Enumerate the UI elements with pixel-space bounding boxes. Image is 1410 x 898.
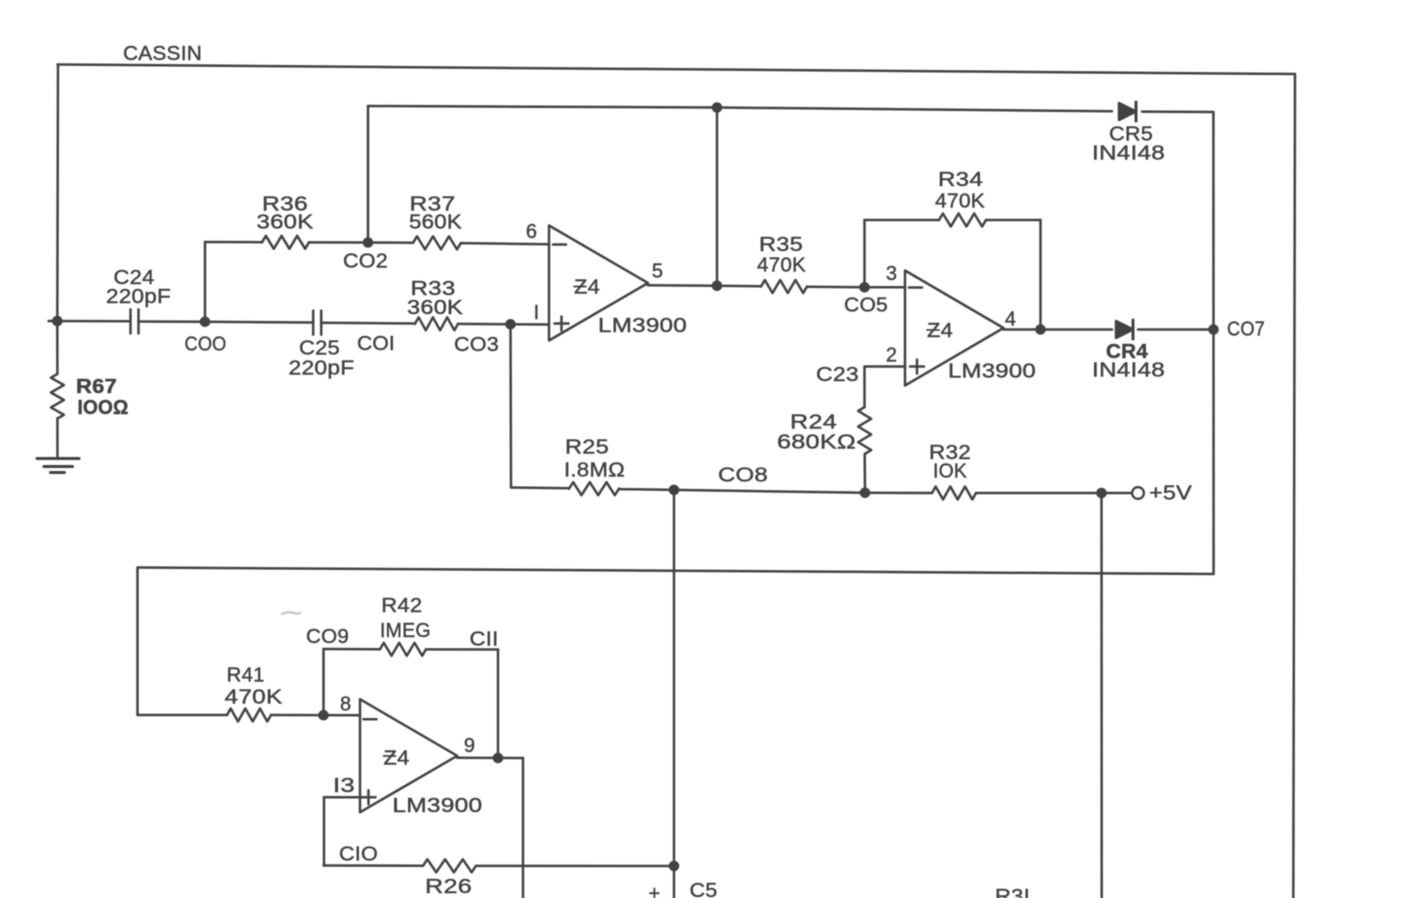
resistor R34 470K xyxy=(939,214,986,227)
wire x137 corner to R41 xyxy=(138,714,228,717)
junction C08 rail at R24 xyxy=(860,488,871,499)
wire right border vertical xyxy=(1293,74,1295,898)
wire C24 to node C00 xyxy=(139,320,206,323)
wire C07 vertical drop xyxy=(1212,112,1215,574)
wire C11 drop to U3 output xyxy=(497,650,500,759)
svg-text:LM3900: LM3900 xyxy=(392,795,482,817)
junction U1 output xyxy=(712,281,723,292)
junction node C00 xyxy=(200,317,211,328)
svg-text:CIO: CIO xyxy=(339,843,378,865)
wire R34 right drop to U2 output xyxy=(1039,220,1042,330)
svg-text:+5V: +5V xyxy=(1149,482,1193,504)
junction input node (left border) xyxy=(52,316,63,327)
op-amp U3 (Z4 LM3900 third section) xyxy=(360,699,457,812)
wire U3 output to corner xyxy=(457,757,523,760)
junction node C02 xyxy=(363,237,374,248)
wire node C02 to R37 xyxy=(368,241,413,244)
wire x674 vertical xyxy=(673,490,676,898)
U3 non-inverting input marker xyxy=(362,790,376,804)
U1 non-inverting input marker xyxy=(555,317,569,331)
svg-text:CO9: CO9 xyxy=(306,626,349,648)
svg-text:CO3: CO3 xyxy=(454,334,499,356)
svg-text:IN4I48: IN4I48 xyxy=(1092,142,1165,164)
junction U3 pin 8 node xyxy=(318,710,329,721)
resistor R42 1MEG xyxy=(380,643,426,656)
wire C23 corner to U2 pin 2 xyxy=(865,365,906,368)
wire C02 feedback top rail xyxy=(368,106,1112,111)
wire R41 to junction pin8 xyxy=(271,714,360,717)
junction R26 / C5 node xyxy=(669,861,680,872)
svg-text:Z4: Z4 xyxy=(384,747,410,769)
wire left riser x137 xyxy=(136,568,139,716)
diode CR4 1N4148 xyxy=(1116,320,1133,339)
svg-text:220pF: 220pF xyxy=(106,286,171,308)
resistor R32 10K xyxy=(932,487,976,500)
diode CR5 1N4148 xyxy=(1119,102,1136,121)
resistor R67 100ohm xyxy=(51,374,64,419)
svg-text:C23: C23 xyxy=(816,364,859,386)
ground symbol xyxy=(37,459,79,473)
capacitor C25 220pF xyxy=(313,311,321,335)
svg-text:CO8: CO8 xyxy=(718,464,768,486)
svg-text:LM3900: LM3900 xyxy=(598,315,687,337)
wire C09 riser xyxy=(322,649,325,715)
wire node C05 to U2 pin 3 xyxy=(865,286,906,289)
U2 inverting input marker xyxy=(909,286,922,289)
svg-text:CII: CII xyxy=(470,628,499,650)
wire CR5 cathode to right corner xyxy=(1142,110,1213,113)
wire C10 corner to R26 xyxy=(324,864,424,867)
wire C25 to R33 xyxy=(322,321,416,324)
op-amp U1 (Z4 LM3900 first section) xyxy=(549,226,648,341)
svg-text:8: 8 xyxy=(340,693,351,715)
svg-text:CO5: CO5 xyxy=(844,294,888,316)
svg-text:LM3900: LM3900 xyxy=(948,360,1036,382)
wire long return horizontal xyxy=(138,568,1214,575)
U3 inverting input marker xyxy=(364,718,377,721)
wire C23 drop to R24 xyxy=(863,367,866,408)
resistor R26 xyxy=(423,859,476,872)
svg-text:560K: 560K xyxy=(409,211,463,233)
wire R24 to C08 rail xyxy=(863,454,866,493)
U2 Z-stroke bar xyxy=(927,329,939,331)
junction node C03 xyxy=(505,319,516,330)
wire vertical U1-output riser to top rail xyxy=(716,108,719,286)
junction R25/C08 rail at x674 xyxy=(669,485,680,496)
svg-text:COI: COI xyxy=(357,333,395,355)
svg-text:I3: I3 xyxy=(333,775,355,797)
svg-text:R24: R24 xyxy=(790,411,837,433)
wire R34 top right segment xyxy=(986,219,1041,222)
wire R25 corner to zigzag xyxy=(511,486,569,489)
junction node C05 xyxy=(859,282,870,293)
resistor R36 360K xyxy=(262,236,309,249)
wire input node to R67 xyxy=(56,321,59,374)
svg-text:IOOΩ: IOOΩ xyxy=(78,397,129,419)
wire R36 to node C02 xyxy=(309,241,368,244)
wire node C00 to C25 xyxy=(205,321,313,324)
svg-text:R25: R25 xyxy=(565,436,609,458)
resistor R25 1.8Mohm xyxy=(569,482,619,495)
wire R34 top left segment xyxy=(865,219,940,222)
wire U2 output to CR4 xyxy=(1004,328,1113,331)
svg-text:R42: R42 xyxy=(381,595,422,617)
svg-text:2: 2 xyxy=(886,344,897,366)
svg-text:R3I: R3I xyxy=(995,886,1030,898)
wire U3 pin 13 stub xyxy=(324,796,360,799)
svg-text:3: 3 xyxy=(886,263,897,285)
resistor R37 560K xyxy=(413,236,461,249)
svg-text:R34: R34 xyxy=(938,169,983,191)
junction +5V rail xyxy=(1096,488,1107,499)
svg-text:R67: R67 xyxy=(76,376,117,398)
svg-text:680KΩ: 680KΩ xyxy=(777,431,856,453)
svg-text:R35: R35 xyxy=(759,234,803,256)
resistor R24 680Kohm xyxy=(858,407,871,454)
wire C00 riser xyxy=(204,242,207,322)
wire R32 to +5V junction xyxy=(976,492,1102,495)
U3 Z-stroke bar xyxy=(384,755,396,757)
wire U1 output to junction xyxy=(648,284,717,287)
svg-text:C25: C25 xyxy=(299,337,340,359)
wire R37 to op-amp U1 pin 6 xyxy=(461,243,549,244)
terminal +5V xyxy=(1132,487,1144,499)
junction node C07 xyxy=(1208,324,1219,335)
wire node C03 to op-amp U1 pin 1 xyxy=(511,323,549,326)
wire R25 to junction x674 xyxy=(619,489,865,493)
wire C05 riser to R34 xyxy=(863,220,866,287)
svg-text:CO7: CO7 xyxy=(1227,318,1265,340)
wire R67 to ground xyxy=(56,419,59,459)
junction top rail at riser xyxy=(712,102,723,113)
U2 non-inverting input marker xyxy=(910,360,924,374)
wire CASSIN top horizontal xyxy=(58,65,1296,75)
scan artifact smudge xyxy=(282,612,300,614)
svg-text:6: 6 xyxy=(526,221,537,243)
wire C08 rail to R32 xyxy=(865,492,932,495)
wire R42 to C11 corner xyxy=(426,648,498,651)
junction U2 output xyxy=(1035,324,1046,335)
wire CR4 to node C07 xyxy=(1138,328,1214,331)
wire node C03 drop to R25 xyxy=(509,324,512,487)
svg-text:470K: 470K xyxy=(757,254,806,276)
svg-text:220pF: 220pF xyxy=(289,357,355,379)
op-amp U2 (Z4 LM3900 second section) xyxy=(905,271,1004,386)
svg-text:9: 9 xyxy=(464,735,475,757)
svg-text:IMEG: IMEG xyxy=(380,620,431,642)
wire vertical C02 riser xyxy=(367,106,370,243)
svg-text:I.8MΩ: I.8MΩ xyxy=(564,459,625,481)
wire R35 to node C05 xyxy=(807,286,865,289)
svg-text:IN4I48: IN4I48 xyxy=(1092,359,1165,381)
junction U3 output xyxy=(493,753,504,764)
svg-text:470K: 470K xyxy=(935,190,985,212)
svg-text:+: + xyxy=(649,883,661,898)
capacitor C24 220pF xyxy=(131,309,139,333)
U1 Z-stroke bar xyxy=(574,286,586,288)
svg-text:360K: 360K xyxy=(257,211,315,233)
svg-text:5: 5 xyxy=(652,260,663,282)
wire pin13 drop xyxy=(323,797,326,865)
svg-text:COO: COO xyxy=(185,333,227,355)
wire U3 output drop x523 xyxy=(522,758,525,898)
svg-text:C5: C5 xyxy=(690,880,718,898)
wire +5V vertical drop xyxy=(1100,493,1103,898)
wire U1 output junction to R35 xyxy=(717,285,761,288)
svg-text:4: 4 xyxy=(1005,308,1016,330)
wire R26 to junction x674 xyxy=(476,865,674,868)
wire input node to C24 xyxy=(49,320,131,323)
wire junction to +5V terminal xyxy=(1102,492,1133,495)
svg-text:R26: R26 xyxy=(425,876,472,898)
svg-text:I: I xyxy=(534,302,540,324)
resistor R35 470K xyxy=(761,280,807,293)
svg-text:CASSIN: CASSIN xyxy=(123,43,202,65)
resistor R33 360K xyxy=(415,317,458,330)
wire C09 corner to R42 xyxy=(324,648,381,651)
svg-text:470K: 470K xyxy=(225,686,284,708)
U1 inverting input marker xyxy=(553,243,566,246)
wire R33 to node C03 xyxy=(458,323,511,326)
svg-text:360K: 360K xyxy=(407,297,464,319)
svg-text:R41: R41 xyxy=(227,664,265,686)
svg-text:IOK: IOK xyxy=(933,460,967,482)
resistor R41 470K xyxy=(227,709,271,722)
svg-text:CO2: CO2 xyxy=(343,250,388,272)
wire left border vertical (CASSIN to input node) xyxy=(56,65,59,322)
wire C00 to R36 xyxy=(205,241,262,244)
